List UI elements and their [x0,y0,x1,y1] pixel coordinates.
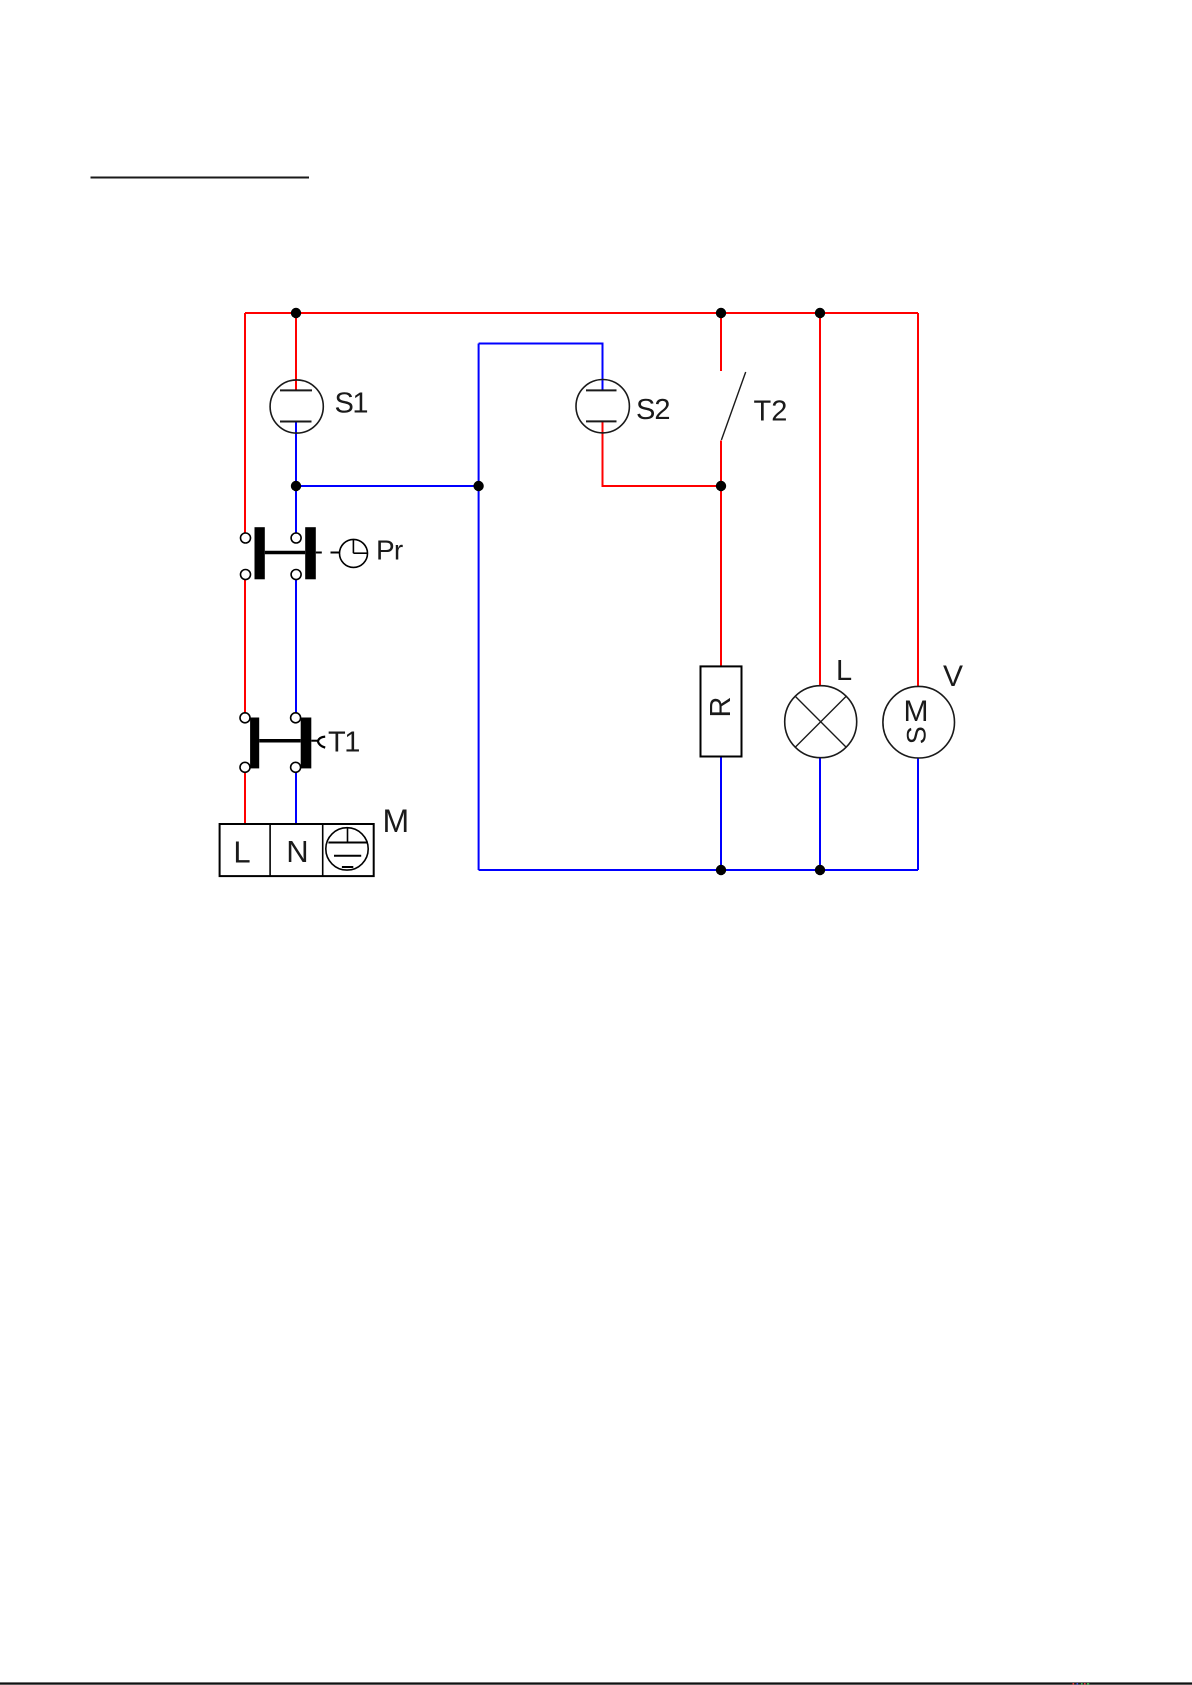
svg-text:S: S [901,726,931,744]
svg-text:L: L [233,835,250,870]
svg-text:T2: T2 [754,395,788,427]
svg-text:V: V [943,660,963,693]
svg-text:M: M [383,803,410,839]
svg-text:S2: S2 [636,394,669,426]
svg-text:M: M [904,695,929,728]
svg-text:R: R [705,697,737,718]
svg-text:N: N [286,834,308,869]
svg-text:S1: S1 [335,388,368,420]
svg-text:Pr: Pr [376,535,403,566]
svg-text:T1: T1 [328,727,359,759]
svg-text:L: L [836,655,852,687]
